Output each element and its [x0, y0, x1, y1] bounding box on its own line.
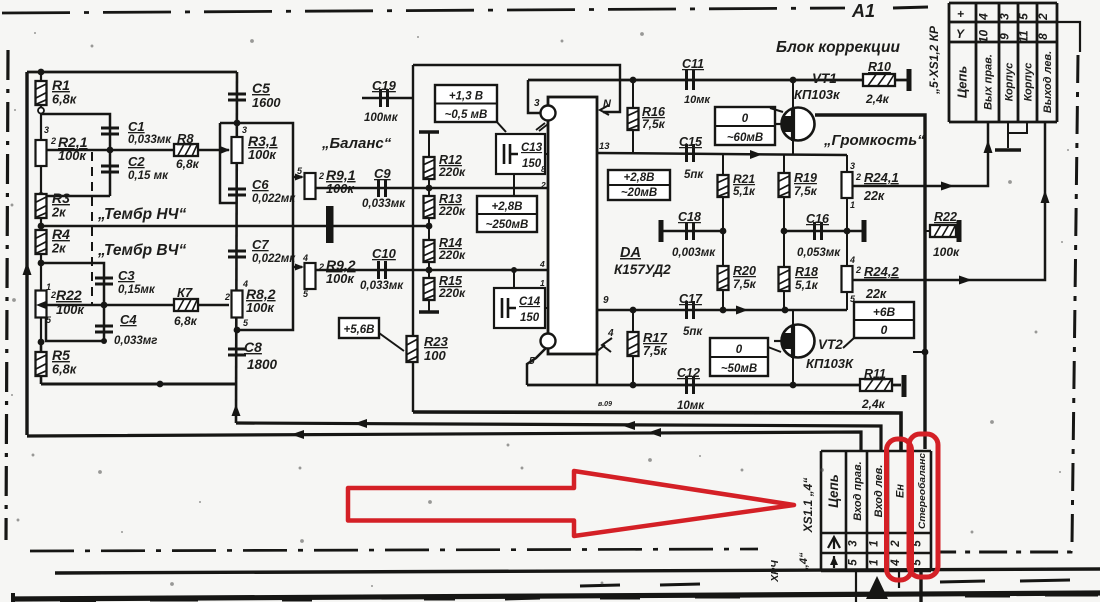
svg-text:К157УД2: К157УД2: [614, 262, 671, 277]
svg-text:+5,6В: +5,6В: [343, 324, 374, 336]
terminal after R11: [902, 375, 907, 397]
potentiometer R3.1: [232, 137, 243, 163]
svg-text:С11: С11: [682, 57, 704, 71]
resistor R4: [36, 230, 47, 254]
arrow on bus B: [354, 419, 367, 428]
svg-text:Выход лев.: Выход лев.: [1042, 51, 1054, 113]
wire R24.1 bottom: [846, 198, 848, 231]
svg-text:2: 2: [890, 540, 902, 548]
wire: component rail left: [40, 72, 42, 384]
svg-text:Цепь: Цепь: [826, 474, 841, 508]
node C18: [720, 228, 727, 235]
wire: op-amp box top edge: [413, 65, 620, 112]
node VT2/gnd: [790, 382, 797, 389]
potentiometer R22 (left): [36, 291, 47, 318]
wire: pin13 net y153: [597, 153, 847, 155]
wire: pin5 to ground rail: [527, 348, 546, 385]
svg-text:220к: 220к: [438, 248, 466, 262]
callout 0/60mV box: [715, 107, 775, 145]
svg-text:11: 11: [1017, 30, 1031, 43]
svg-text:+2,8В: +2,8В: [491, 201, 522, 213]
svg-text:4: 4: [849, 255, 855, 265]
svg-text:4: 4: [607, 328, 614, 339]
callout +2.8V/20mV box: [608, 170, 670, 200]
svg-text:А1: А1: [851, 1, 875, 21]
input arrow under XS1.1: [866, 576, 888, 599]
wire: top-left horizontal: [27, 71, 237, 74]
node R18/pin9: [782, 307, 789, 314]
node on left bottom bus: [157, 381, 164, 388]
svg-text:„Баланс“: „Баланс“: [321, 135, 392, 152]
svg-text:3: 3: [998, 13, 1012, 20]
wire R21 bottom / C18 node: [722, 197, 724, 266]
svg-text:С12: С12: [677, 366, 700, 380]
svg-text:100к: 100к: [933, 245, 960, 259]
wire: left bottom bus to rail: [41, 383, 237, 386]
svg-text:~20мВ: ~20мВ: [621, 187, 657, 199]
potentiometer R9.2: [305, 263, 316, 289]
next block top line 2: [12, 593, 1100, 599]
svg-text:5пк: 5пк: [684, 169, 704, 181]
svg-text:R20: R20: [733, 264, 756, 278]
svg-text:„Громкость“: „Громкость“: [823, 132, 925, 149]
potentiometer R24.2: [846, 231, 848, 266]
node C3/C4: [101, 302, 108, 309]
leader +6V to VT2: [843, 338, 854, 348]
capacitor C5: [228, 94, 246, 100]
R15 bottom T-bar: [428, 300, 430, 312]
svg-text:4: 4: [302, 253, 308, 263]
svg-text:3: 3: [44, 125, 49, 135]
wiper stub R9.1: [293, 176, 302, 179]
svg-text:R24,2: R24,2: [864, 264, 899, 279]
node R16 top: [630, 77, 637, 84]
svg-text:2: 2: [224, 292, 230, 302]
arrow on bus C (2): [648, 428, 661, 437]
node R5 top: [38, 339, 45, 346]
svg-text:С17: С17: [679, 292, 703, 306]
wire: jog from y80 wire to pin3: [528, 80, 540, 113]
svg-text:2: 2: [318, 171, 324, 181]
svg-text:3: 3: [848, 540, 860, 547]
svg-text:Цепь: Цепь: [955, 66, 970, 98]
capacitor C7: [228, 251, 246, 257]
resistor R13: [428, 179, 430, 196]
arrow up to XS1.2 col5: [1041, 190, 1050, 203]
wiper arrow R3.1: [220, 146, 230, 154]
node bus/VT2: [922, 349, 929, 356]
svg-text:К7: К7: [177, 285, 193, 300]
svg-text:5: 5: [848, 559, 860, 566]
electrolytic bar element: [326, 206, 334, 243]
svg-text:4: 4: [977, 13, 991, 21]
svg-text:С4: С4: [120, 312, 137, 327]
resistor K7: [174, 299, 198, 311]
wire R17 bottom: [632, 356, 634, 385]
svg-text:0,15мк: 0,15мк: [118, 284, 156, 296]
svg-text:Корпус: Корпус: [1004, 63, 1016, 102]
node C16/R19: [781, 228, 788, 235]
node below R1: [38, 108, 44, 114]
wire: op-amp box left rail lower: [412, 362, 414, 412]
wire: op-amp box left rail: [412, 65, 414, 336]
svg-text:КП103к: КП103к: [794, 87, 841, 102]
wire XS1.2 top right: [1057, 22, 1080, 52]
svg-text:+6В: +6В: [873, 305, 896, 319]
capacitor C4: [103, 305, 106, 341]
capacitor C15: [687, 144, 694, 162]
arrow on R24.2 out: [959, 276, 972, 285]
resistor R17: [632, 310, 634, 332]
terminal C18 left: [659, 220, 664, 242]
wiper stub R9.2: [293, 266, 302, 269]
op-amp pin3 circle: [541, 106, 556, 121]
node R17/gnd: [630, 382, 637, 389]
svg-text:~0,5 мВ: ~0,5 мВ: [445, 109, 488, 121]
callout +2.8V/250mV box: [477, 196, 537, 232]
capacitor C19: [362, 97, 413, 100]
svg-text:Ен: Ен: [895, 484, 907, 498]
svg-text:С9: С9: [374, 166, 391, 181]
svg-text:Корпус: Корпус: [1023, 63, 1035, 102]
wire R16 bottom: [632, 130, 634, 153]
svg-text:3: 3: [242, 125, 247, 135]
resistor R1: [36, 81, 47, 105]
node C16/R24: [844, 228, 851, 235]
svg-text:6,8к: 6,8к: [176, 157, 200, 171]
svg-text:С10: С10: [372, 246, 397, 261]
svg-text:1: 1: [869, 559, 881, 565]
wire XS1.2 col4 step: [1008, 122, 1027, 133]
svg-text:5,1к: 5,1к: [733, 186, 756, 198]
wiper wire R2.1 to R3.1: [46, 149, 229, 152]
wire R13-R14: [428, 218, 430, 240]
wire: main top signal y80: [528, 79, 908, 82]
wire: pin9 net y310: [597, 309, 847, 312]
balance loop wire: [220, 123, 293, 330]
node R4 bottom: [38, 260, 45, 267]
wire VT1 source: [792, 80, 794, 108]
red annotation arrow: [348, 471, 794, 536]
resistor R22 (right): [925, 230, 930, 232]
svg-text:100к: 100к: [326, 271, 354, 286]
connector XS1.1 table: [821, 451, 931, 571]
svg-text:8: 8: [541, 164, 546, 174]
aux loop R3.1: [220, 123, 237, 203]
resistor R16: [632, 80, 634, 108]
svg-text:1800: 1800: [247, 357, 278, 372]
resistor R15: [428, 262, 430, 278]
svg-text:„5·ХS1,2 КР: „5·ХS1,2 КР: [927, 25, 941, 95]
svg-text:+1,3 В: +1,3 В: [449, 91, 483, 103]
wire: ground rail y385: [527, 384, 901, 387]
svg-text:220к: 220к: [438, 165, 466, 179]
svg-text:0,053мк: 0,053мк: [797, 247, 841, 259]
pin3 input chevron: [536, 123, 548, 131]
capacitor C12: [687, 376, 694, 394]
svg-text:2: 2: [50, 136, 56, 146]
red highlight round-rect col4: [887, 439, 912, 580]
svg-text:~250мВ: ~250мВ: [486, 219, 529, 231]
svg-text:2к: 2к: [51, 205, 66, 220]
svg-text:0,022мк: 0,022мк: [252, 253, 296, 265]
svg-text:100: 100: [424, 348, 446, 363]
resistor R11: [860, 379, 892, 391]
wire below col4: [898, 571, 900, 588]
stub +6V box to bus: [913, 351, 925, 353]
resistor R12: [424, 157, 435, 179]
node balance loop: [234, 327, 241, 334]
svg-text:С3: С3: [118, 268, 135, 283]
resistor R21: [722, 153, 724, 175]
svg-text:1: 1: [869, 540, 881, 546]
arrow up on center rail: [232, 404, 241, 416]
resistor R10: [863, 74, 895, 86]
wiper wire R22 to R8.2: [46, 304, 229, 307]
svg-text:R22: R22: [56, 287, 82, 303]
svg-text:R22: R22: [934, 210, 957, 224]
next block cut-off text marks: [60, 580, 1098, 601]
transistor VT1: [774, 108, 815, 142]
wire: R24.2 wiper out: [853, 122, 1045, 280]
wire: C10 net (R9.2 wiper out): [316, 269, 548, 272]
R12 top T-bar: [419, 130, 439, 133]
capacitor C14 box: [494, 288, 545, 328]
node R20/pin9: [720, 307, 727, 314]
terminal after R10: [907, 69, 912, 91]
svg-text:N: N: [603, 98, 612, 110]
svg-text:5пк: 5пк: [683, 326, 703, 338]
node C14 stub: [511, 267, 517, 273]
wire R20 bottom: [722, 290, 724, 310]
svg-text:2: 2: [540, 180, 546, 190]
arrow on R24.1 out: [941, 182, 954, 191]
svg-text:100к: 100к: [248, 147, 276, 162]
svg-text:R21: R21: [733, 172, 755, 186]
callout 0/50mV box: [710, 338, 768, 376]
capacitor C2: [109, 150, 112, 196]
svg-text:С16: С16: [806, 212, 830, 226]
svg-text:100мк: 100мк: [364, 112, 399, 124]
wire: bottom bus C: [27, 432, 861, 451]
terminal after R22: [957, 220, 962, 242]
svg-text:7,5к: 7,5к: [643, 344, 667, 358]
svg-text:R10: R10: [868, 60, 891, 74]
svg-text:0,033мк: 0,033мк: [128, 134, 172, 146]
wire R19 bottom to C16 net: [783, 198, 785, 231]
svg-text:С19: С19: [372, 78, 397, 93]
wire: C9 net (R9.1 wiper out): [316, 187, 548, 190]
node tone wire joint: [426, 223, 433, 230]
svg-text:2,4к: 2,4к: [865, 92, 890, 106]
svg-text:в.09: в.09: [598, 401, 612, 408]
op-amp pin4 output corner: [596, 354, 599, 385]
svg-text:С6: С6: [252, 177, 269, 192]
wire: output bus x925: [815, 115, 925, 449]
svg-text:13: 13: [599, 141, 610, 152]
node VT1 top: [790, 77, 797, 84]
transistor VT2: [774, 325, 815, 359]
svg-text:„Тембр НЧ“: „Тембр НЧ“: [97, 206, 187, 223]
resistor R14: [424, 240, 435, 262]
next block corner: [11, 593, 15, 602]
svg-text:С7: С7: [252, 237, 269, 252]
svg-text:ХS1.1 „4“: ХS1.1 „4“: [801, 478, 815, 534]
svg-text:7,5к: 7,5к: [794, 184, 818, 198]
svg-text:10мк: 10мк: [684, 94, 711, 106]
wire VT1 drain: [792, 138, 794, 155]
wire: bottom bus A (inner box bottom): [413, 412, 901, 451]
svg-text:+: +: [957, 7, 964, 21]
resistor R23: [407, 336, 418, 362]
resistor R8: [174, 144, 198, 156]
svg-text:КП103К: КП103К: [806, 356, 854, 371]
svg-text:С5: С5: [252, 80, 270, 96]
wire: left input rail: [25, 72, 28, 435]
node R14/R15 input: [426, 267, 433, 274]
sheet top border (dash-dot): [2, 8, 845, 13]
svg-text:С13: С13: [521, 142, 543, 154]
capacitor C17: [687, 301, 694, 319]
capacitor C11: [687, 70, 694, 90]
svg-text:22к: 22к: [865, 287, 887, 301]
sheet bottom border (dash-dot): [30, 549, 758, 551]
svg-text:С2: С2: [128, 154, 145, 169]
wire: center rail: [236, 72, 237, 423]
capacitor C10: [379, 261, 386, 279]
svg-text:DA: DA: [620, 245, 641, 261]
gang dashed link R2.1-R22: [91, 152, 93, 305]
svg-text:Стереобаланс: Стереобаланс: [917, 452, 928, 529]
svg-text:„Тембр ВЧ“: „Тембр ВЧ“: [97, 242, 187, 259]
pin4 output chevrons: [596, 338, 612, 352]
svg-text:~60мВ: ~60мВ: [727, 132, 763, 144]
wire R18 bottom: [783, 292, 785, 310]
svg-text:4: 4: [539, 259, 545, 269]
svg-text:С18: С18: [678, 210, 701, 224]
callout +5.6V box: [339, 318, 379, 338]
svg-text:0,033мк: 0,033мк: [360, 280, 404, 292]
arrow up to XS1.2: [984, 140, 993, 153]
svg-text:10мк: 10мк: [677, 400, 705, 412]
wire below col5 (thick): [919, 571, 922, 602]
resistor R3: [36, 194, 47, 218]
wire: mid tone wire y=226: [41, 225, 427, 228]
svg-text:7,5к: 7,5к: [733, 277, 757, 291]
svg-text:0,003мк: 0,003мк: [672, 247, 716, 259]
callout +6V box: [854, 302, 914, 338]
sheet right border (dash-dot): [936, 55, 1078, 552]
svg-text:1: 1: [540, 278, 545, 288]
arrow on bus C: [291, 430, 304, 439]
callout +1.3V box: [435, 85, 497, 122]
svg-text:+2,8В: +2,8В: [623, 172, 654, 184]
wire: R2.1 loop top: [41, 114, 110, 150]
node: rail/top: [38, 69, 45, 76]
svg-text:4: 4: [890, 559, 902, 567]
node C4 bottom: [101, 338, 107, 344]
wire: R2.1 loop bottom: [41, 195, 110, 198]
svg-text:7,5к: 7,5к: [642, 117, 666, 131]
wire R24.2 bottom: [846, 293, 848, 310]
svg-text:100к: 100к: [246, 300, 274, 315]
svg-text:R23: R23: [424, 334, 449, 349]
svg-text:С15: С15: [679, 135, 703, 149]
node R12/R13 input: [426, 185, 433, 192]
svg-text:10: 10: [977, 30, 991, 44]
svg-text:22к: 22к: [863, 189, 885, 203]
svg-text:VT1: VT1: [812, 71, 837, 86]
node R3/R4: [38, 223, 45, 230]
stub C13 to +2.8V box: [513, 174, 515, 196]
capacitor C16: [815, 222, 822, 240]
red highlight round-rect col5: [909, 434, 938, 577]
resistor R19: [783, 155, 785, 172]
resistor R5: [40, 341, 43, 384]
svg-text:R11: R11: [864, 367, 886, 381]
svg-text:2к: 2к: [51, 241, 66, 256]
capacitor C18: [687, 222, 694, 240]
node loop bottom: [38, 193, 44, 199]
pin N chevron: [600, 105, 609, 115]
svg-text:1600: 1600: [252, 95, 280, 110]
capacitor C3: [95, 278, 113, 284]
capacitor C13 box: [496, 134, 545, 174]
svg-text:1: 1: [850, 200, 855, 210]
wire: R24.1 wiper out: [853, 122, 988, 186]
sheet top border right segment: [893, 7, 928, 8]
wire VT2 top: [792, 310, 794, 325]
C14 stub to C10 net: [513, 270, 515, 288]
svg-text:С14: С14: [519, 296, 541, 308]
ground bar under XS1.2: [995, 148, 1021, 151]
svg-text:0,15 мк: 0,15 мк: [128, 170, 169, 182]
svg-text:R18: R18: [795, 265, 818, 279]
svg-text:5,1к: 5,1к: [795, 278, 819, 292]
svg-text:R24,1: R24,1: [864, 170, 899, 185]
op-amp pin5 circle: [541, 334, 556, 349]
node C1/wiper wire: [107, 147, 114, 154]
svg-text:ХРЧ: ХРЧ: [769, 560, 781, 583]
capacitor C1: [101, 128, 119, 134]
svg-text:Вых прав.: Вых прав.: [983, 54, 995, 110]
op-amp DA K157UD2 body: [548, 97, 597, 354]
next block top line 1: [55, 569, 1100, 573]
svg-text:0,033мг: 0,033мг: [114, 335, 157, 347]
svg-text:2: 2: [1036, 13, 1050, 21]
wire VT2 bottom: [792, 357, 794, 385]
potentiometer R9.1: [305, 173, 316, 199]
svg-text:6,8к: 6,8к: [52, 92, 77, 107]
potentiometer R2.1: [36, 140, 47, 166]
sheet left border (dash-dot): [6, 50, 8, 540]
svg-text:2: 2: [855, 172, 861, 182]
svg-text:0,033мк: 0,033мк: [362, 198, 406, 210]
svg-text:~50мВ: ~50мВ: [721, 363, 757, 375]
svg-text:R17: R17: [643, 330, 668, 345]
wire: R22 bottom loop: [46, 318, 104, 341]
wiper arrow into R22: [36, 301, 46, 309]
svg-text:150: 150: [522, 158, 542, 170]
potentiometer R8.2: [232, 291, 243, 318]
svg-text:150: 150: [520, 312, 540, 324]
svg-text:Вход лев.: Вход лев.: [873, 465, 885, 518]
arrow on bus B (2): [622, 421, 635, 430]
svg-text:0: 0: [881, 323, 888, 337]
svg-text:220к: 220к: [438, 286, 466, 300]
leader 0/50mV to VT2: [768, 347, 781, 352]
svg-text:0: 0: [736, 344, 743, 356]
